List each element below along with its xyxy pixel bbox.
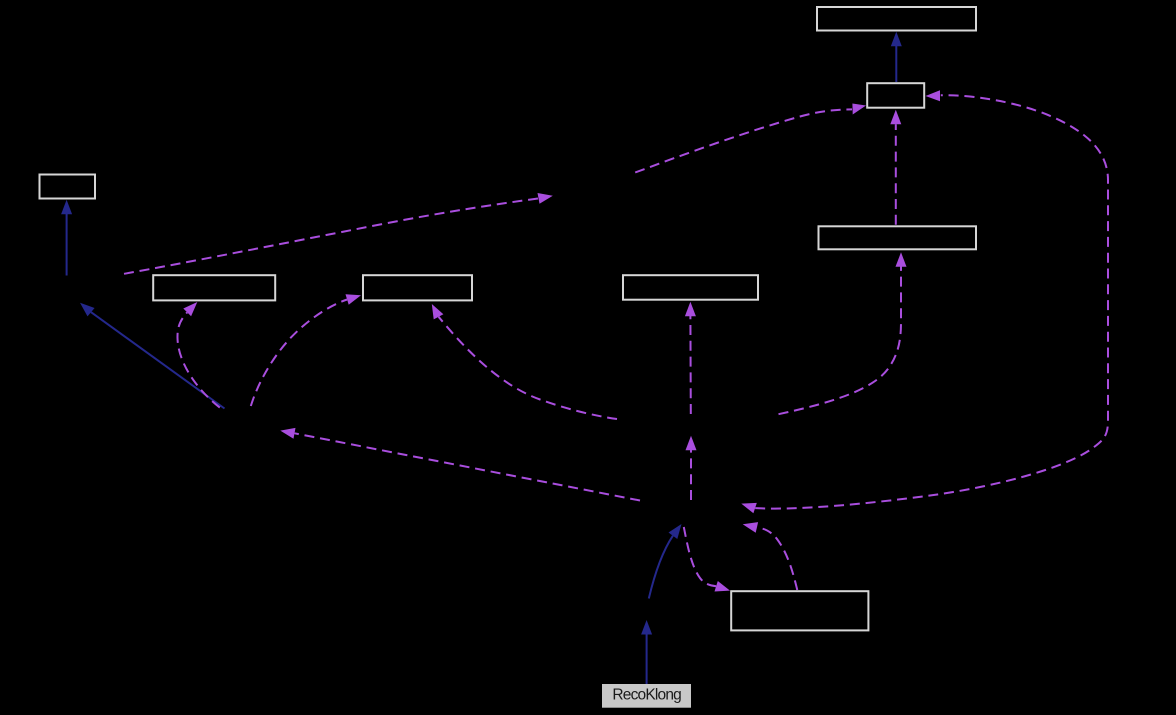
node G (right row box) xyxy=(623,275,758,300)
node C (right middle box) xyxy=(819,226,977,249)
edge: purple dashed hidden node N3 to H xyxy=(684,527,730,592)
node B (small box under A) xyxy=(867,83,924,108)
edge: purple dashed H to hidden node N3 xyxy=(743,522,798,590)
edge: blue solid B to A (inheritance) xyxy=(891,32,902,82)
edge: purple dashed hidden node N8 to B xyxy=(635,104,866,173)
edge: purple dashed hidden node N6 to E xyxy=(177,302,219,408)
edge: purple dashed hidden node N2 to G xyxy=(685,302,696,414)
edge: purple dashed hidden node N7 to hidden node N8 xyxy=(124,193,553,274)
edge: blue solid hidden node N7 to D xyxy=(61,200,72,276)
svg-text:RecoKlong: RecoKlong xyxy=(612,687,681,704)
edge: purple dashed long curve between hidden node N3 and B (arrows both ends) xyxy=(741,90,1108,513)
edge: purple dashed hidden node N3 to hidden node N6 xyxy=(280,428,640,501)
edge: purple dashed C to B xyxy=(890,110,901,225)
edge: blue solid hidden node N5 to hidden node N3 xyxy=(649,524,682,599)
node D (left small box) xyxy=(40,175,96,199)
node H (tall box bottom right) xyxy=(731,591,868,630)
edge: purple dashed hidden node N6 to F xyxy=(251,294,361,406)
edge: purple dashed hidden node N3 to hidden node N2 xyxy=(686,436,697,500)
edge: blue solid RecoKlong to hidden node N5 xyxy=(641,620,652,684)
edge: purple dashed hidden node N2 to F xyxy=(432,304,617,419)
node A (top box) xyxy=(817,7,976,31)
node RecoKlong (current class, gray filled) xyxy=(602,684,691,708)
edge: blue solid hidden node N6 to hidden node N7 xyxy=(80,303,225,409)
node E (left row box) xyxy=(153,275,275,300)
node F (middle row box) xyxy=(363,275,472,300)
edge: purple dashed hidden node N2 to C xyxy=(779,252,907,414)
